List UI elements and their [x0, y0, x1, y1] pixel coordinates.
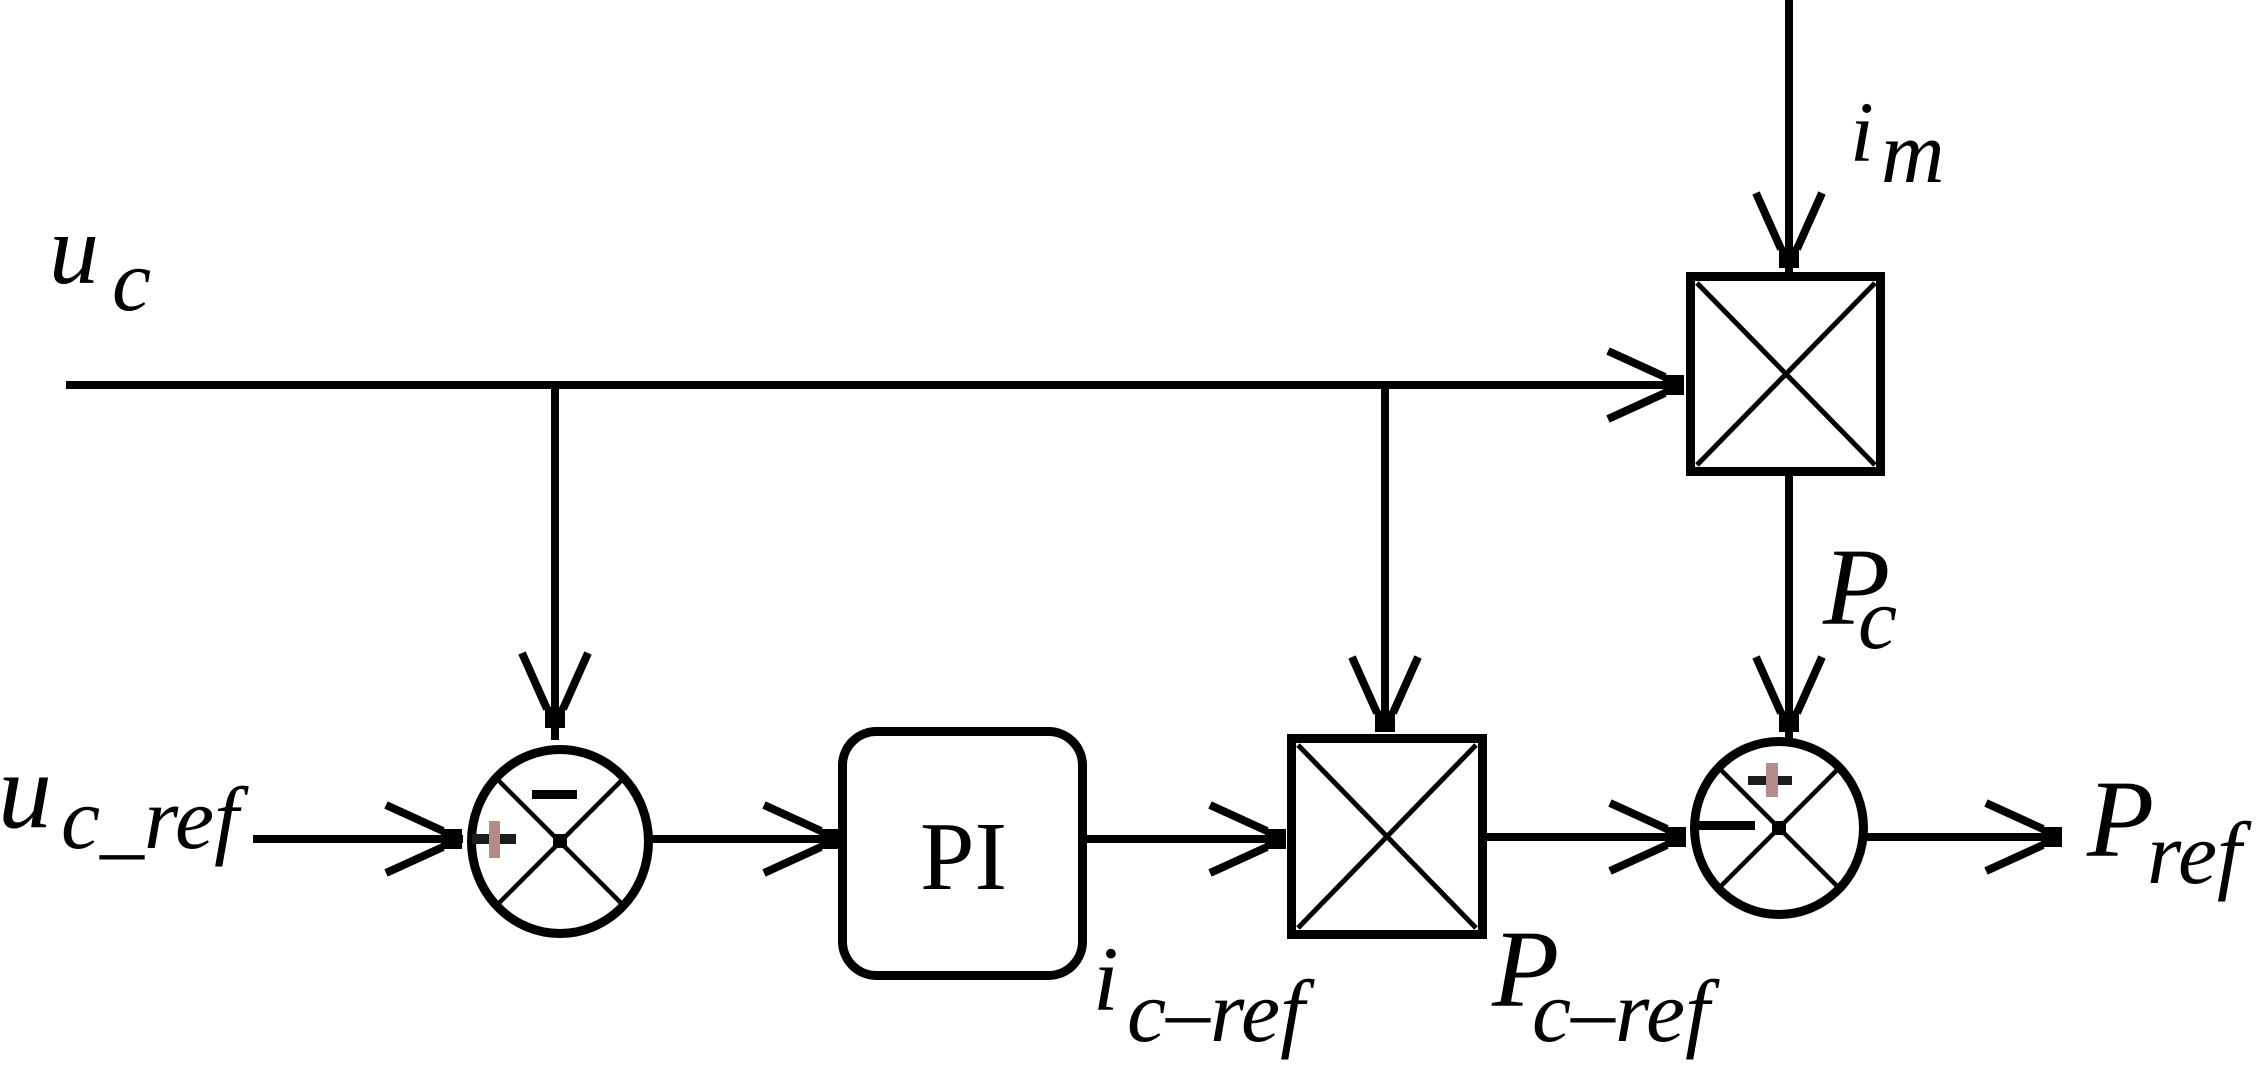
svg-text:m: m: [1881, 105, 1945, 202]
svg-text:c_ref: c_ref: [61, 771, 249, 868]
svg-text:c: c: [1858, 571, 1897, 668]
svg-text:c–ref: c–ref: [1532, 964, 1720, 1061]
svg-text:c–ref: c–ref: [1127, 964, 1315, 1061]
svg-text:ref: ref: [2147, 806, 2252, 903]
svg-text:u: u: [0, 732, 52, 851]
svg-text:i: i: [1093, 928, 1119, 1030]
svg-text:PI: PI: [920, 803, 1007, 911]
svg-text:c: c: [112, 233, 151, 330]
svg-text:i: i: [1850, 84, 1874, 180]
svg-text:P: P: [2086, 758, 2154, 880]
svg-text:u: u: [49, 194, 99, 305]
